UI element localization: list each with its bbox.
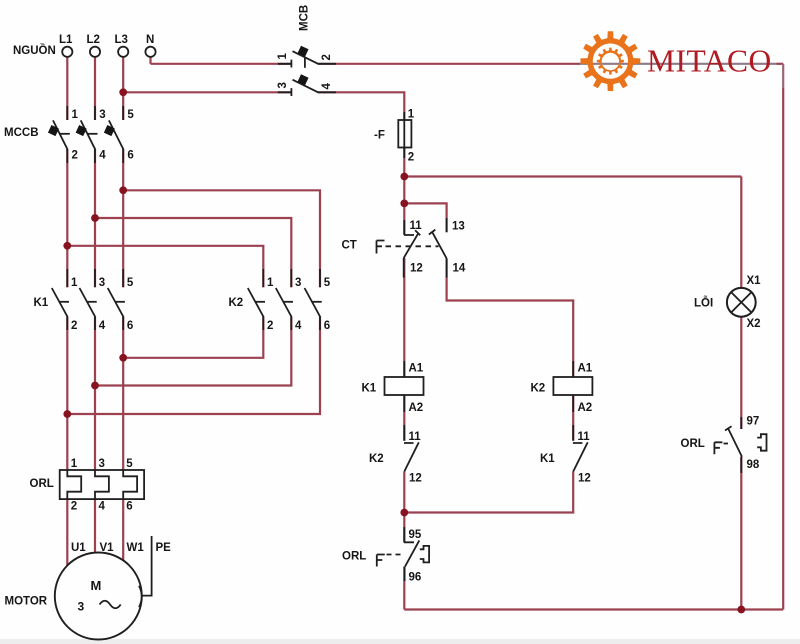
svg-text:5: 5 [324, 277, 331, 289]
svg-text:2: 2 [71, 320, 77, 332]
heater element 1 [67, 470, 81, 499]
svg-text:K1: K1 [362, 383, 377, 395]
node dot control join [400, 509, 408, 517]
breaker MCB contact 1-2 [277, 46, 336, 68]
svg-text:MCCB: MCCB [4, 127, 39, 139]
svg-text:2: 2 [72, 150, 78, 162]
svg-text:M: M [91, 578, 102, 593]
svg-text:12: 12 [409, 473, 422, 485]
contactor K2 pole 2 [276, 269, 302, 332]
contactor K2 pole 1 [248, 269, 274, 332]
svg-text:MITACO: MITACO [647, 44, 772, 79]
wire K2 pole 1 bottom to L3 row [123, 317, 263, 358]
wire L3 row to MCB pole 3-4 [123, 91, 292, 93]
svg-text:4: 4 [99, 320, 106, 332]
svg-text:5: 5 [126, 458, 133, 470]
svg-text:6: 6 [127, 150, 133, 162]
svg-text:3: 3 [295, 277, 301, 289]
svg-text:12: 12 [578, 473, 591, 485]
heater element 3 [123, 470, 137, 499]
node dot L1 row C [63, 242, 71, 250]
wire L1 column lower [66, 317, 68, 567]
svg-text:L1: L1 [59, 34, 73, 46]
coil K1 [362, 361, 424, 414]
svg-text:6: 6 [126, 501, 132, 513]
svg-text:K2: K2 [229, 297, 244, 309]
wire L3 column upper [122, 58, 124, 288]
wire node row to lamp branch [404, 175, 741, 177]
svg-text:2: 2 [408, 152, 414, 164]
overload relay ORL power box [30, 458, 145, 513]
svg-text:A2: A2 [409, 402, 424, 414]
node dot to CT 13 [400, 200, 408, 208]
wire lamp branch upper [740, 177, 742, 289]
svg-text:A1: A1 [578, 363, 593, 375]
svg-text:K1: K1 [34, 297, 49, 309]
terminal L2 [87, 34, 101, 57]
wire L2 column upper [94, 58, 96, 288]
svg-text:X1: X1 [747, 275, 762, 287]
svg-text:L3: L3 [115, 34, 128, 46]
switch CT pole 13-14 NO [429, 218, 466, 278]
svg-text:1: 1 [277, 53, 289, 60]
svg-text:1: 1 [408, 109, 415, 121]
svg-text:3: 3 [99, 277, 105, 289]
wire N drop [149, 58, 151, 64]
wire MCB 4 to fuse corner [318, 92, 404, 120]
svg-text:K2: K2 [531, 383, 546, 395]
wire bottom bus [404, 608, 783, 610]
wire fuse to CT [403, 148, 405, 235]
breaker MCCB pole 1 [48, 106, 79, 163]
svg-text:3: 3 [99, 458, 105, 470]
contactor K1 pole 3 [108, 269, 134, 332]
wire MCB 2 to right edge [318, 63, 580, 65]
svg-text:11: 11 [409, 431, 422, 443]
contactor K1 pole 1 [52, 269, 78, 332]
breaker MCCB pole 2 [76, 106, 107, 163]
svg-text:2: 2 [71, 501, 77, 513]
wire K2 pole 3 bottom to L2 row [95, 317, 291, 386]
wire L2 column lower [94, 317, 96, 555]
svg-text:ORL: ORL [681, 438, 705, 450]
wire ORL 96 down to bottom bus [403, 567, 405, 610]
svg-text:NGUỒN: NGUỒN [13, 44, 56, 57]
svg-text:3: 3 [99, 109, 105, 121]
svg-text:3: 3 [78, 600, 85, 614]
terminal N [145, 34, 155, 57]
logo gear icon [581, 31, 641, 91]
wire L3 column lower [122, 317, 124, 562]
svg-text:ORL: ORL [30, 478, 54, 490]
svg-text:-F: -F [374, 130, 385, 142]
svg-text:6: 6 [127, 320, 133, 332]
terminal L3 [115, 34, 129, 57]
svg-text:N: N [146, 34, 154, 46]
node dot L1 row F [63, 410, 71, 418]
svg-text:12: 12 [410, 263, 423, 275]
contactor K1 pole 2 [80, 269, 106, 332]
wire CT 14 down over to K2 coil [447, 258, 574, 377]
svg-text:4: 4 [321, 83, 333, 90]
svg-text:5: 5 [127, 277, 134, 289]
wire L1 row to K2 pole 1 [67, 246, 263, 287]
lamp LOI [694, 275, 761, 330]
svg-text:11: 11 [410, 220, 423, 232]
PE frame arc [139, 586, 142, 607]
svg-text:U1: U1 [71, 542, 86, 554]
svg-text:A1: A1 [409, 363, 424, 375]
svg-text:14: 14 [453, 263, 466, 275]
svg-text:13: 13 [452, 221, 465, 233]
svg-text:L2: L2 [87, 34, 100, 46]
wire PE [142, 536, 152, 596]
wire node row to CT pole 13 [404, 203, 446, 232]
switch CT pole 11-12 NC [404, 220, 423, 278]
wire K2 coil to K1 interlock [572, 395, 574, 441]
svg-text:CT: CT [342, 240, 357, 252]
svg-text:3: 3 [277, 82, 289, 88]
node dot L3/MCB row [119, 88, 127, 96]
wire CT 12 down to K1 coil [403, 258, 405, 377]
overload ORL contact 95-96 NC [342, 527, 429, 584]
interlock contact K1 NC (under K2 coil) [540, 425, 591, 485]
svg-text:95: 95 [409, 529, 422, 541]
interlock contact K2 NC (under K1 coil) [369, 425, 422, 485]
svg-text:K2: K2 [369, 453, 384, 465]
breaker MCB contact 3-4 [277, 74, 336, 96]
svg-text:1: 1 [72, 109, 79, 121]
svg-text:4: 4 [295, 320, 302, 332]
wire L2 row to K2 pole 3 [95, 218, 291, 287]
switch CT linkage dashed [386, 245, 439, 247]
svg-text:4: 4 [99, 150, 106, 162]
terminal L1 [59, 34, 73, 57]
wire L3 row to K2 pole 5 [123, 190, 320, 287]
contactor K2 pole 3 [305, 269, 331, 332]
svg-text:1: 1 [267, 277, 274, 289]
node dot bus lamp branch [737, 606, 745, 614]
svg-text:98: 98 [747, 459, 760, 471]
svg-text:A2: A2 [578, 402, 593, 414]
svg-text:V1: V1 [100, 542, 115, 554]
switch CT handle [377, 241, 385, 254]
node dot fuse out to lamp [400, 173, 408, 181]
fuse -F [374, 109, 415, 164]
svg-text:MCB: MCB [299, 5, 311, 31]
wire K1 coil to K2 interlock [403, 395, 405, 441]
node dot L3 row D [119, 354, 127, 362]
wire right edge riser [782, 88, 784, 610]
svg-text:96: 96 [409, 572, 422, 584]
svg-text:2: 2 [321, 54, 333, 60]
overload ORL contact 97-98 NO [681, 416, 767, 474]
svg-text:X2: X2 [747, 318, 761, 330]
svg-text:K1: K1 [540, 453, 555, 465]
wire K2 interlock down to node [403, 472, 405, 543]
svg-text:4: 4 [99, 501, 106, 513]
svg-text:1: 1 [71, 277, 78, 289]
svg-text:LỖI: LỖI [694, 297, 713, 310]
wire N row to MCB pole 1-2 [151, 63, 292, 65]
svg-text:97: 97 [747, 416, 760, 428]
svg-text:MOTOR: MOTOR [5, 596, 48, 608]
wire K2 pole 5 bottom to L1 row [67, 317, 320, 415]
node dot L3 row A [119, 186, 127, 194]
motor M [5, 542, 172, 640]
wire ORL 98 to bus [740, 457, 742, 610]
wire lamp to ORL 97 [740, 317, 742, 429]
svg-text:W1: W1 [127, 542, 145, 554]
svg-text:5: 5 [127, 109, 134, 121]
svg-text:11: 11 [578, 431, 591, 443]
svg-text:6: 6 [324, 320, 330, 332]
heater element 2 [95, 470, 109, 499]
breaker MCCB pole 3 [104, 106, 135, 163]
wire L1 column upper [66, 58, 68, 288]
svg-text:2: 2 [267, 320, 273, 332]
coil K2 [531, 361, 593, 414]
svg-text:1: 1 [71, 458, 78, 470]
node dot L2 row B [91, 214, 99, 222]
svg-text:PE: PE [156, 542, 172, 554]
svg-text:ORL: ORL [342, 551, 366, 563]
wire K1 interlock down and across to node [404, 472, 573, 513]
node dot L2 row E [91, 382, 99, 390]
